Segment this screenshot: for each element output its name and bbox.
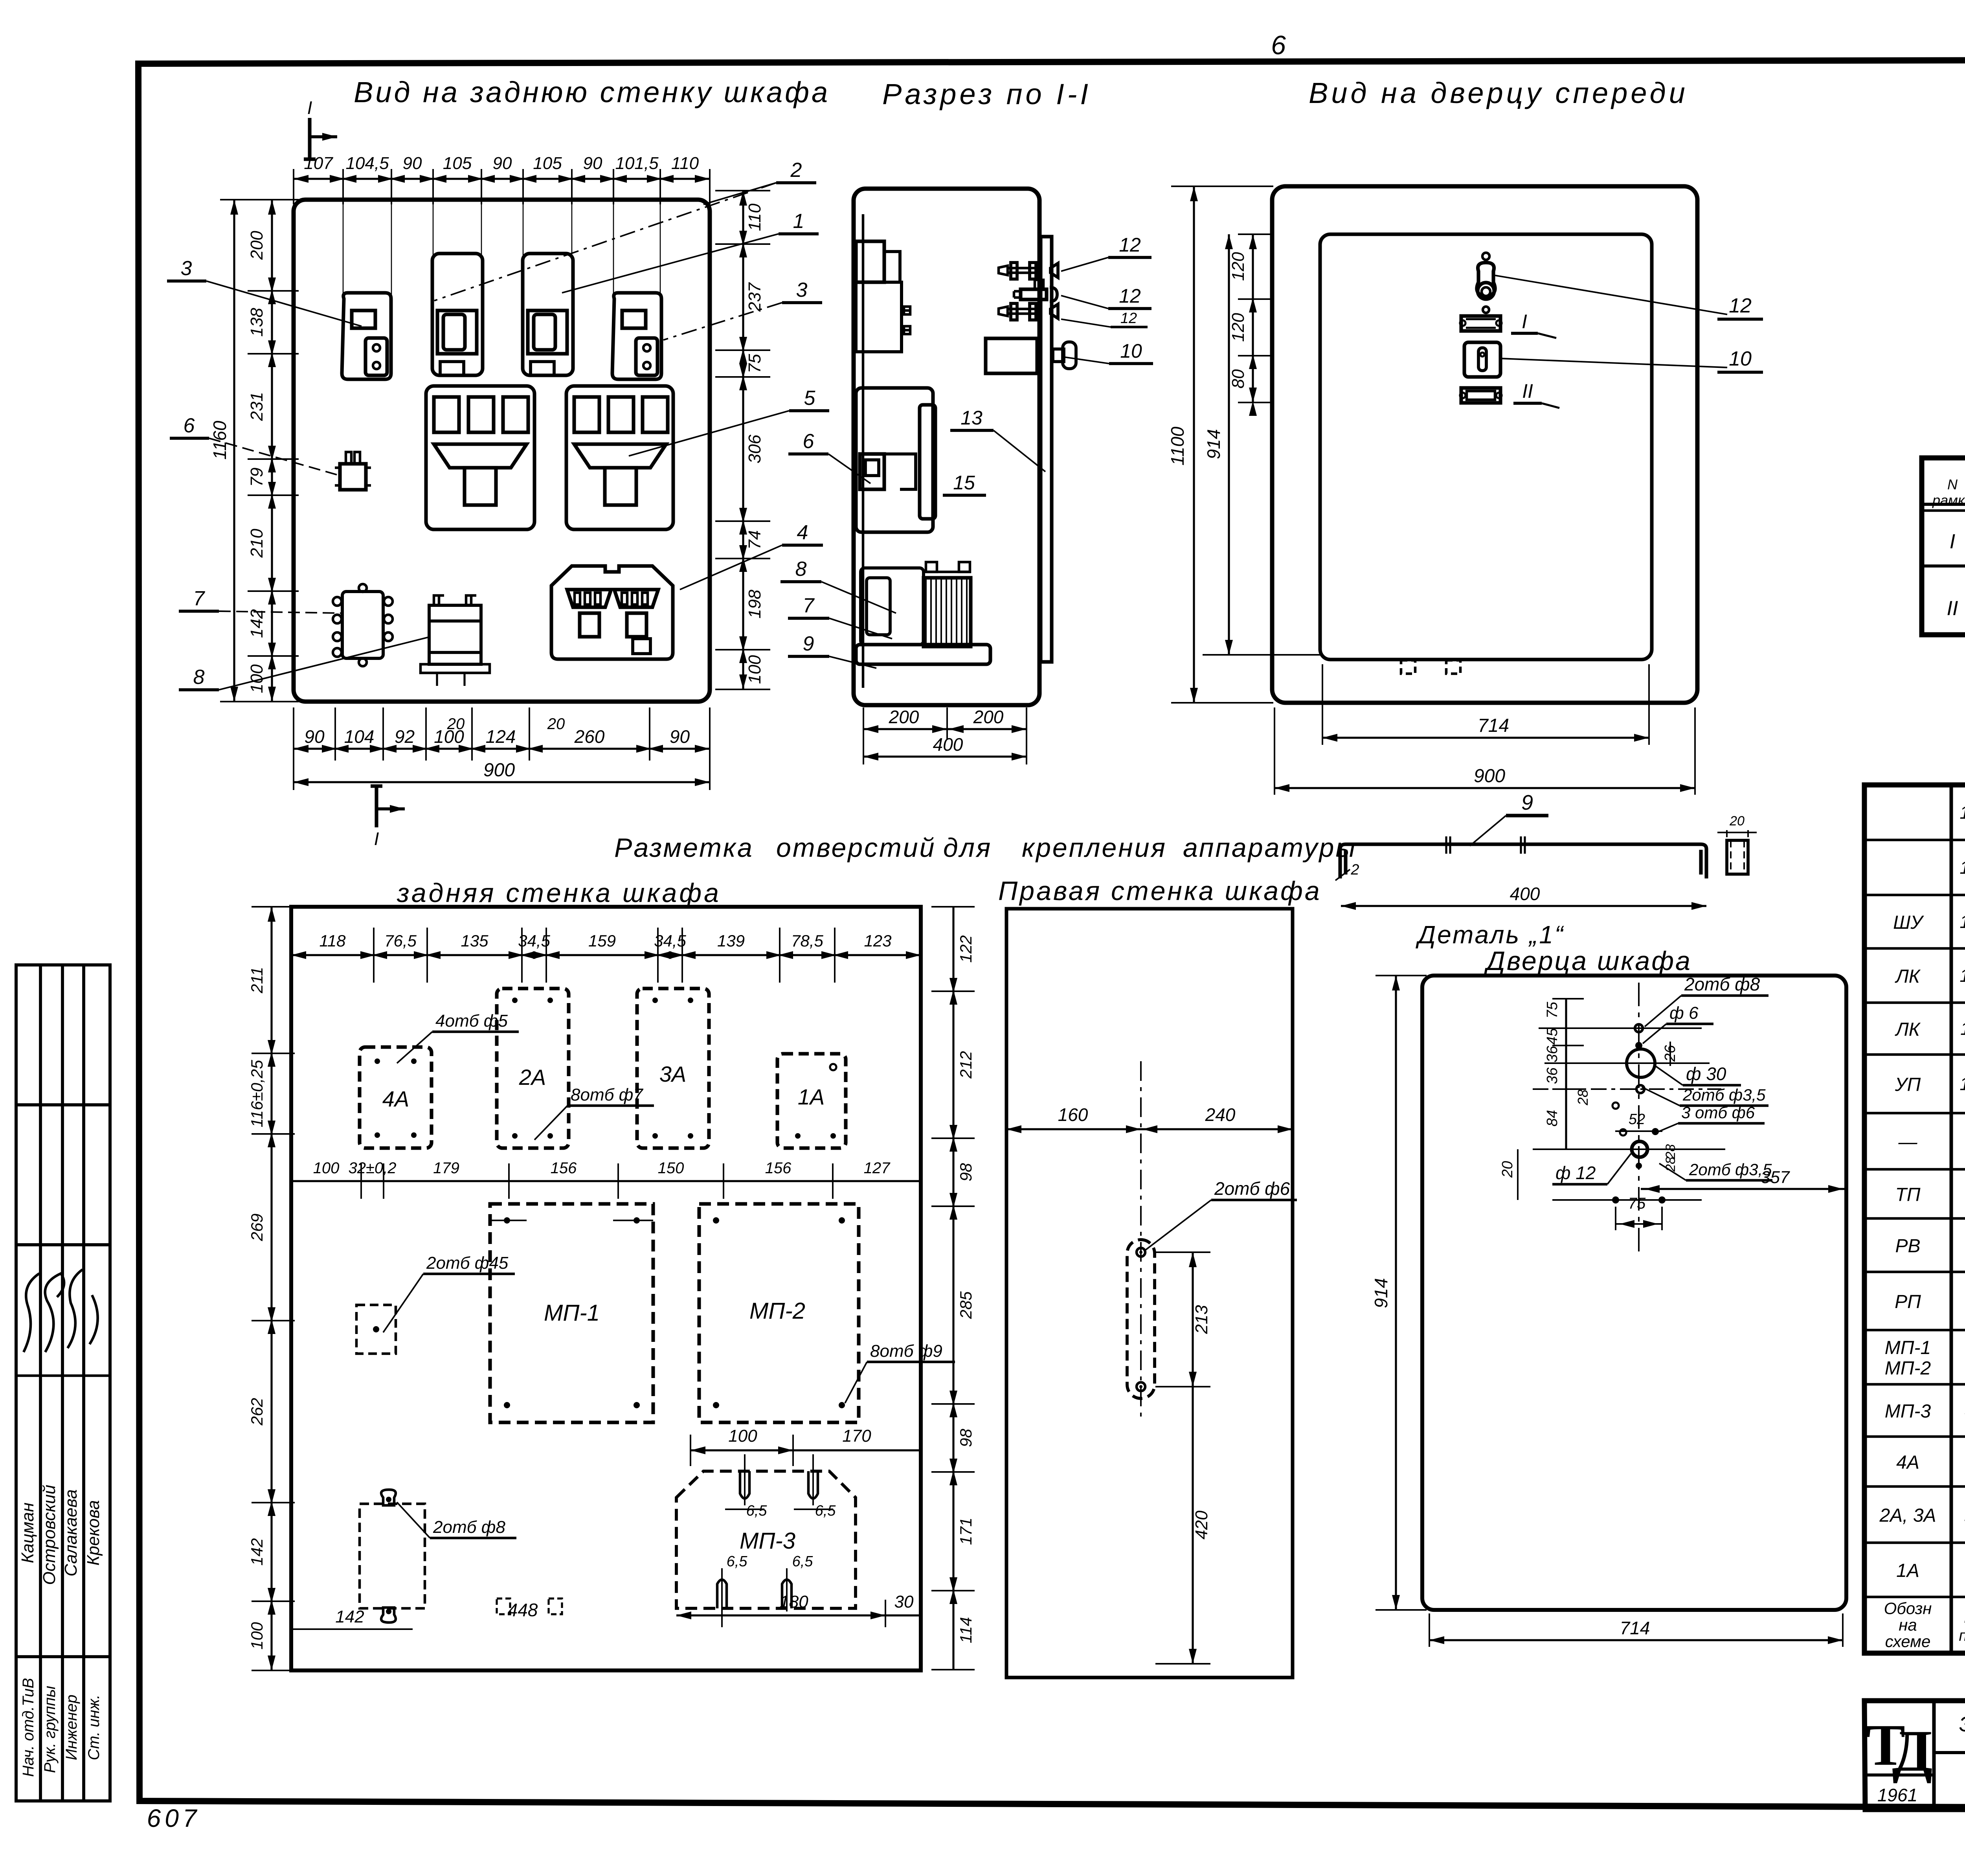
svg-text:1961: 1961 [1877, 1785, 1917, 1805]
svg-text:Вид на дверцу спереди: Вид на дверцу спереди [1309, 77, 1688, 109]
section bottom dimension 200 200 [863, 707, 864, 739]
svg-text:Дверца шкафа: Дверца шкафа [1484, 946, 1692, 976]
svg-text:МП-2: МП-2 [749, 1298, 805, 1324]
bracket dim 400 [1341, 905, 1706, 907]
signature table verticals [39, 965, 42, 1801]
svg-text:4А: 4А [382, 1086, 410, 1111]
detail small holes left [1612, 1102, 1619, 1109]
right wall dim 213 [1192, 1252, 1194, 1387]
door inner panel outline [1320, 234, 1652, 660]
svg-text:123: 123 [864, 932, 891, 950]
svg-text:714: 714 [1478, 715, 1509, 736]
svg-text:90: 90 [403, 154, 422, 173]
signal lamp (item 12) on door [1482, 253, 1489, 260]
svg-text:3А: 3А [659, 1062, 687, 1086]
svg-text:ЛК: ЛК [1895, 1019, 1921, 1040]
svg-text:105: 105 [533, 154, 562, 173]
svg-text:200: 200 [247, 231, 266, 260]
svg-text:6: 6 [184, 414, 195, 437]
label frame I on door [1461, 316, 1500, 331]
markup hole group 1A [777, 1054, 846, 1148]
svg-text:92: 92 [395, 726, 415, 747]
section cabinet outline [854, 189, 1039, 705]
frames table header underline (double) [1922, 503, 1965, 506]
svg-text:ШУ: ШУ [1893, 912, 1924, 933]
svg-text:8отб ф7: 8отб ф7 [571, 1085, 643, 1104]
svg-text:8отб ф9: 8отб ф9 [870, 1341, 942, 1361]
svg-text:1160: 1160 [209, 421, 230, 459]
svg-text:120: 120 [1229, 252, 1248, 281]
detail centerline vertical [1638, 983, 1640, 1254]
svg-text:2: 2 [1350, 862, 1359, 878]
signature table horizontals [16, 1103, 110, 1106]
svg-text:138: 138 [247, 308, 266, 337]
svg-text:101,5: 101,5 [615, 154, 659, 173]
svg-text:Рук. группы: Рук. группы [41, 1686, 59, 1773]
detail bottom holes [1612, 1196, 1619, 1204]
svg-text:20: 20 [447, 715, 465, 733]
svg-text:1А: 1А [798, 1084, 825, 1109]
left outer dimension 1160 [233, 200, 235, 702]
svg-text:98: 98 [957, 1163, 975, 1181]
svg-text:231: 231 [247, 392, 266, 421]
svg-text:2А, 3А: 2А, 3А [1879, 1505, 1936, 1526]
svg-text:100: 100 [745, 655, 764, 684]
svg-text:5: 5 [804, 387, 816, 410]
door dimension 900 [1274, 787, 1695, 789]
door leader to callout 10 [1500, 358, 1727, 367]
bottom dimension chain 90 104 92 100 124 260 90 [293, 707, 294, 761]
svg-text:6,5: 6,5 [746, 1503, 768, 1519]
detail dot right [1652, 1128, 1659, 1135]
svg-text:Салакаева: Салакаева [61, 1489, 81, 1577]
svg-text:1100: 1100 [1167, 426, 1188, 465]
svg-text:75: 75 [1544, 1001, 1561, 1018]
svg-text:ЛК: ЛК [1895, 966, 1921, 987]
svg-text:2отб ф6: 2отб ф6 [1214, 1178, 1290, 1199]
svg-text:7: 7 [193, 587, 206, 610]
svg-text:6,5: 6,5 [792, 1553, 814, 1570]
svg-text:80: 80 [1229, 369, 1248, 388]
svg-text:104: 104 [344, 726, 375, 747]
section: middle fitting (item 12) [1021, 289, 1047, 299]
svg-text:рамки: рамки [1932, 492, 1965, 508]
door outer outline [1272, 186, 1697, 703]
right wall slot [1127, 1240, 1155, 1398]
svg-text:237: 237 [745, 282, 764, 312]
svg-text:Ст. инж.: Ст. инж. [85, 1695, 103, 1760]
reversing starter MP-3 (item 4, back view) [551, 566, 673, 659]
right wall slot centerline [1140, 1061, 1142, 1423]
door left dim chain 120 120 80 [1252, 234, 1254, 402]
markup small bracket holes (2отв ф45) [356, 1305, 396, 1354]
svg-text:6,5: 6,5 [815, 1503, 836, 1519]
svg-text:13: 13 [1959, 911, 1965, 932]
svg-text:I: I [307, 97, 312, 118]
svg-text:Разрез по I-I: Разрез по I-I [882, 78, 1091, 110]
svg-text:Обозн: Обозн [1884, 1599, 1932, 1618]
svg-text:420: 420 [1192, 1510, 1211, 1540]
svg-text:260: 260 [574, 726, 605, 747]
svg-text:14: 14 [1959, 857, 1965, 878]
svg-text:отверстий: отверстий [776, 833, 936, 863]
svg-text:2отб ф3,5: 2отб ф3,5 [1682, 1086, 1766, 1104]
svg-text:12: 12 [1120, 310, 1137, 327]
svg-text:3: 3 [181, 257, 192, 280]
svg-text:3 отб ф6: 3 отб ф6 [1681, 1103, 1755, 1122]
MP-3 bottom slots [717, 1580, 727, 1608]
svg-text:Вид на заднюю стенку шка: Вид на заднюю стенку шкафа [354, 76, 830, 108]
label frame II on door [1461, 388, 1500, 403]
svg-text:32±0,2: 32±0,2 [348, 1159, 396, 1177]
svg-text:12: 12 [1119, 285, 1141, 307]
svg-text:ф 30: ф 30 [1686, 1064, 1726, 1084]
svg-text:142: 142 [247, 609, 266, 638]
svg-text:124: 124 [486, 726, 516, 747]
svg-text:Разметка: Разметка [614, 833, 754, 863]
svg-text:15: 15 [1959, 802, 1965, 823]
svg-text:150: 150 [658, 1159, 684, 1177]
svg-text:Д: Д [1892, 1718, 1932, 1784]
svg-text:142: 142 [248, 1538, 266, 1565]
svg-text:448: 448 [508, 1600, 538, 1620]
title block outline [1864, 1701, 1965, 1810]
section door panel [1041, 237, 1052, 662]
section: lamp bolt lower (item 12) [999, 307, 1008, 316]
detail hole ф6 top [1635, 1024, 1643, 1032]
svg-text:крепления: крепления [1022, 833, 1167, 863]
svg-text:114: 114 [957, 1617, 975, 1643]
MP-3 top slots [740, 1471, 749, 1499]
detail hole dot below [1636, 1163, 1642, 1169]
svg-text:МП-2: МП-2 [1885, 1358, 1931, 1379]
svg-text:607: 607 [147, 1804, 201, 1832]
svg-text:20: 20 [1729, 814, 1745, 829]
detail hole ф8 below [1636, 1085, 1644, 1093]
svg-text:75: 75 [745, 354, 764, 373]
svg-text:6: 6 [803, 430, 814, 453]
markup hole group 3A [637, 989, 709, 1148]
svg-text:Нач. отд.ТиВ: Нач. отд.ТиВ [20, 1678, 37, 1777]
svg-text:135: 135 [461, 932, 488, 950]
left inner dimension chain 200 138 231 79 210 142 100 [271, 200, 273, 702]
section: automat on back wall (items 1-3) [856, 241, 884, 282]
detail door outline [1422, 976, 1846, 1610]
svg-text:30: 30 [894, 1592, 914, 1611]
svg-text:4: 4 [797, 521, 808, 544]
svg-text:9: 9 [803, 632, 814, 655]
svg-text:79: 79 [247, 468, 266, 487]
svg-text:аппаратуры: аппаратуры [1183, 833, 1357, 863]
svg-text:II: II [1522, 380, 1533, 402]
markup 448 clips [497, 1599, 510, 1614]
svg-text:100: 100 [313, 1159, 340, 1177]
svg-text:9: 9 [1521, 791, 1533, 814]
title block logo cell [1932, 1701, 1936, 1810]
top dimension chain of back view [293, 169, 294, 204]
markup top dim chain [291, 954, 921, 956]
svg-text:262: 262 [248, 1398, 266, 1426]
svg-text:12: 12 [1959, 965, 1965, 986]
svg-text:90: 90 [583, 154, 602, 173]
svg-text:104,5: 104,5 [345, 154, 389, 173]
markup back wall outline [291, 907, 921, 1670]
svg-text:179: 179 [433, 1159, 459, 1177]
detail hole centerlines [1539, 1027, 1702, 1029]
markup starter MP-1 area [490, 1204, 653, 1422]
door bottom clips [1401, 660, 1415, 674]
automat 2A (back view) [432, 254, 483, 375]
svg-text:45: 45 [1544, 1028, 1561, 1045]
svg-text:Кацман: Кацман [18, 1503, 37, 1563]
right wall dim 160 240 [1006, 1128, 1293, 1130]
svg-text:357: 357 [1761, 1168, 1790, 1187]
section: starter side view (item 5) [856, 388, 933, 532]
svg-text:200: 200 [889, 707, 919, 727]
svg-text:180: 180 [779, 1592, 808, 1611]
right dimension chain 110 237 75 306 74 198 100 [742, 191, 744, 689]
markup starter MP-3 area [676, 1471, 856, 1608]
markup middle dim chain 100 32 179 156 150 156 127 [291, 1180, 921, 1182]
svg-text:900: 900 [483, 760, 515, 781]
markup right dim chain 122 212 98 285 98 171 114 [952, 907, 954, 1670]
automat 1A (back view, top row left) [342, 293, 391, 379]
svg-text:7: 7 [803, 594, 815, 617]
svg-text:11: 11 [1960, 1018, 1965, 1039]
svg-text:159: 159 [588, 932, 616, 950]
svg-text:2: 2 [790, 159, 802, 182]
svg-text:120: 120 [1229, 313, 1248, 342]
svg-text:110: 110 [745, 203, 764, 231]
svg-text:МП-3: МП-3 [740, 1528, 795, 1554]
markup dim 100 170 [691, 1449, 921, 1451]
svg-text:схеме: схеме [1885, 1632, 1931, 1651]
svg-text:211: 211 [248, 967, 266, 994]
svg-text:210: 210 [247, 529, 266, 558]
svg-text:8: 8 [795, 558, 807, 581]
intermediate relay RP (item 6, back view) [340, 464, 366, 490]
svg-text:Электрическая часть раздв: Электрическая часть раздвижных ворот [1959, 1712, 1965, 1736]
svg-text:на: на [1899, 1616, 1917, 1634]
svg-text:142: 142 [335, 1607, 364, 1626]
frames table outline [1922, 458, 1965, 635]
svg-text:Крекова: Крекова [84, 1500, 103, 1566]
svg-text:8: 8 [193, 666, 205, 689]
svg-text:914: 914 [1203, 429, 1224, 459]
svg-text:задняя стенка шкафа: задняя стенка шкафа [397, 878, 721, 908]
svg-text:ф 6: ф 6 [1669, 1003, 1699, 1023]
svg-text:ТП: ТП [1895, 1185, 1920, 1205]
svg-text:110: 110 [671, 154, 699, 173]
svg-text:160: 160 [1058, 1104, 1088, 1125]
svg-text:116±0,25: 116±0,25 [248, 1060, 266, 1127]
svg-text:10: 10 [1959, 1074, 1965, 1094]
svg-text:6: 6 [1271, 30, 1286, 60]
svg-text:156: 156 [551, 1159, 577, 1177]
universal switch (item 10) on door [1464, 342, 1500, 377]
svg-text:240: 240 [1205, 1104, 1236, 1125]
svg-text:78,5: 78,5 [791, 932, 823, 950]
svg-text:I: I [1522, 311, 1527, 333]
magnetic starter MP-1 (back view) [426, 386, 534, 529]
svg-text:Островский: Островский [40, 1485, 59, 1585]
svg-text:УП: УП [1895, 1075, 1921, 1095]
svg-text:90: 90 [304, 726, 325, 747]
title block dividers [1934, 1751, 1965, 1754]
svg-text:90: 90 [670, 726, 690, 747]
svg-text:I: I [374, 829, 379, 849]
svg-text:156: 156 [765, 1159, 792, 1177]
svg-text:13: 13 [960, 407, 982, 429]
svg-text:N: N [1947, 476, 1958, 492]
section: transformer side view (items 7,8) [856, 645, 990, 664]
total width dimension 900 [294, 781, 710, 783]
svg-text:400: 400 [1510, 884, 1540, 904]
detail dim 714 bottom [1429, 1639, 1843, 1641]
svg-text:Правая стенка шкафа: Правая стенка шкафа [998, 876, 1322, 906]
svg-text:1А: 1А [1896, 1560, 1919, 1581]
svg-text:171: 171 [957, 1518, 975, 1545]
svg-text:10: 10 [1120, 340, 1142, 362]
svg-text:15: 15 [953, 472, 975, 494]
svg-text:МП-1: МП-1 [544, 1300, 600, 1326]
svg-text:1: 1 [793, 210, 804, 233]
automat 4A (back view, top row right) [612, 293, 661, 379]
svg-text:36: 36 [1544, 1045, 1561, 1062]
right wall dim 420 [1192, 1387, 1194, 1664]
svg-text:90: 90 [493, 154, 512, 173]
automat 3A (back view) [523, 254, 573, 375]
svg-text:МП-3: МП-3 [1885, 1401, 1931, 1422]
svg-text:170: 170 [842, 1426, 871, 1446]
svg-text:для: для [943, 833, 992, 863]
svg-text:100: 100 [728, 1426, 757, 1446]
svg-text:II: II [1947, 597, 1958, 620]
signature table outline [16, 965, 110, 1801]
section mark I (bottom) [371, 786, 382, 827]
svg-text:—: — [1898, 1132, 1918, 1153]
svg-text:75: 75 [1628, 1195, 1646, 1212]
svg-text:3: 3 [796, 279, 808, 301]
svg-text:2отб ф45: 2отб ф45 [426, 1253, 509, 1273]
svg-text:РП: РП [1895, 1292, 1921, 1312]
markup lamp holes bottom left (2отв ф8) [360, 1504, 425, 1608]
detail hole ф12 [1632, 1141, 1647, 1157]
bracket end view [1727, 840, 1748, 874]
svg-text:Инженер: Инженер [63, 1695, 80, 1760]
door 914 dimension (left) [1228, 234, 1230, 655]
svg-text:ф 12: ф 12 [1555, 1163, 1596, 1183]
svg-text:2отб ф8: 2отб ф8 [1684, 974, 1760, 994]
specification table grid [1864, 785, 1965, 1653]
markup hole group 2A [497, 989, 569, 1148]
signature scribbles [24, 1273, 39, 1352]
detail hole dot [1635, 1042, 1642, 1049]
transformer TP (item 8, back view) [429, 605, 481, 664]
time relay RV (item 7, back view) [342, 592, 383, 658]
svg-text:36: 36 [1544, 1067, 1561, 1084]
svg-text:Деталь „1“: Деталь „1“ [1416, 921, 1565, 949]
svg-text:2отб ф8: 2отб ф8 [433, 1518, 505, 1537]
svg-text:20: 20 [1499, 1161, 1516, 1178]
svg-text:200: 200 [973, 707, 1004, 727]
svg-text:127: 127 [864, 1159, 891, 1177]
svg-text:306: 306 [745, 434, 764, 463]
svg-text:213: 213 [1192, 1305, 1211, 1334]
svg-text:МП-1: МП-1 [1885, 1338, 1931, 1358]
svg-text:I: I [1950, 530, 1955, 553]
frames table row divider [1922, 564, 1965, 568]
section total dimension 400 [863, 755, 1027, 757]
svg-text:198: 198 [745, 590, 764, 619]
door leader to callout 12 [1493, 275, 1727, 314]
magnetic starter MP-2 (back view) [566, 386, 673, 529]
svg-text:4А: 4А [1896, 1452, 1919, 1473]
svg-text:285: 285 [957, 1291, 975, 1319]
markup starter MP-2 area [699, 1204, 859, 1422]
section: lamp bolt upper (item 12) [999, 266, 1008, 275]
door 1100 dimension (left) [1193, 186, 1195, 703]
detail dim 914 left [1395, 976, 1397, 1610]
svg-text:п/п: п/п [1959, 1627, 1965, 1644]
markup hole group 4A [360, 1047, 432, 1148]
svg-text:139: 139 [717, 932, 745, 950]
right wall outline [1006, 909, 1293, 1678]
svg-text:6,5: 6,5 [727, 1553, 748, 1570]
svg-text:2А: 2А [519, 1065, 546, 1090]
svg-text:2отб ф3,5: 2отб ф3,5 [1689, 1160, 1772, 1179]
cabinet back wall outline [294, 200, 710, 702]
svg-text:100: 100 [248, 1622, 266, 1650]
svg-text:28: 28 [1575, 1090, 1591, 1106]
svg-text:105: 105 [443, 154, 472, 173]
bracket strip (скоба) [1340, 844, 1706, 878]
svg-text:12: 12 [1729, 294, 1752, 317]
svg-text:52: 52 [1629, 1111, 1645, 1128]
svg-text:34,5: 34,5 [518, 932, 550, 950]
detail hole ф30 [1627, 1049, 1655, 1077]
door dimension 714 [1322, 737, 1649, 739]
svg-text:10: 10 [1729, 347, 1752, 370]
svg-text:84: 84 [1544, 1110, 1561, 1126]
svg-text:714: 714 [1620, 1618, 1650, 1638]
svg-text:20: 20 [547, 715, 565, 733]
svg-text:122: 122 [957, 935, 975, 963]
svg-text:РВ: РВ [1895, 1236, 1920, 1257]
svg-text:118: 118 [320, 932, 346, 950]
svg-text:76,5: 76,5 [384, 932, 417, 950]
svg-text:212: 212 [957, 1051, 975, 1079]
markup left dim chain 211 116 269 262 142 100 [270, 907, 272, 1670]
svg-text:107: 107 [304, 154, 333, 173]
detail ladder dims 75 45 36 36 28 84 [1565, 999, 1567, 1149]
section: switch on door (item 10) [986, 338, 1037, 373]
svg-text:900: 900 [1474, 766, 1505, 786]
svg-text:400: 400 [933, 734, 963, 755]
svg-text:914: 914 [1371, 1278, 1391, 1308]
svg-text:74: 74 [745, 530, 764, 549]
svg-text:98: 98 [957, 1429, 975, 1447]
section mark I (top) [304, 118, 316, 159]
svg-text:12: 12 [1119, 234, 1141, 256]
svg-text:34,5: 34,5 [654, 932, 686, 950]
svg-text:269: 269 [248, 1213, 266, 1241]
